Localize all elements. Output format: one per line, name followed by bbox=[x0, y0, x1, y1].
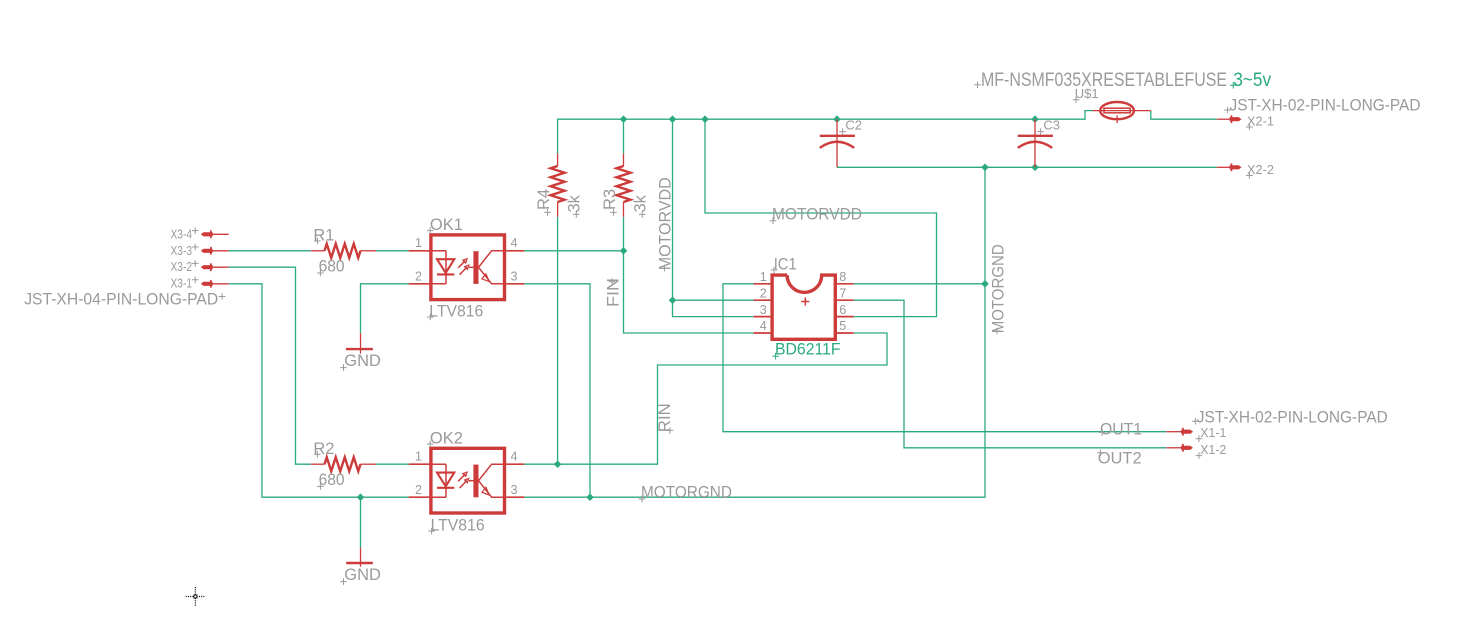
svg-text:LTV816: LTV816 bbox=[431, 516, 485, 534]
junction IC1 pin2 bbox=[669, 296, 677, 304]
wire OK1 pin2 to GND1 bbox=[361, 284, 409, 334]
wire OUT2 IC1 pin7 to X1-2 bbox=[854, 300, 1167, 448]
fuse U$1 MF-NSMF035X bbox=[1093, 102, 1151, 123]
net label MOTORVDD horizontal bbox=[770, 204, 862, 224]
wire VDD rail after fuse to X2-1 bbox=[1151, 111, 1217, 120]
junction IC1 pin8 MOTORGND bbox=[981, 280, 989, 288]
label X2-2 bbox=[1246, 163, 1274, 179]
svg-text:1: 1 bbox=[415, 236, 422, 250]
svg-text:BD6211F: BD6211F bbox=[775, 341, 841, 359]
pin X1-1 bbox=[1166, 428, 1193, 436]
net label MOTORGND horizontal bbox=[639, 483, 732, 503]
label R2 bbox=[313, 440, 334, 458]
svg-text:JST-XH-02-PIN-LONG-PAD: JST-XH-02-PIN-LONG-PAD bbox=[1230, 97, 1421, 115]
svg-text:3: 3 bbox=[760, 303, 767, 317]
label GND1 bbox=[340, 352, 381, 371]
svg-text:RIN: RIN bbox=[655, 403, 674, 432]
svg-text:X3-2: X3-2 bbox=[171, 260, 193, 274]
svg-text:MOTORGND: MOTORGND bbox=[988, 244, 1007, 333]
wire X3-2 to R2 bbox=[229, 267, 311, 464]
resistor R3 bbox=[617, 154, 631, 217]
junction pin6 branch top bbox=[701, 115, 709, 123]
net label MOTORGND vertical bbox=[988, 244, 1007, 334]
svg-text:MOTORVDD: MOTORVDD bbox=[772, 204, 862, 223]
svg-text:GND: GND bbox=[344, 352, 381, 370]
junction rail2 x985 bbox=[981, 164, 989, 172]
capacitor C3 bbox=[1018, 119, 1053, 167]
label U$1 bbox=[1073, 86, 1099, 103]
svg-text:LTV816: LTV816 bbox=[429, 302, 483, 320]
svg-text:2: 2 bbox=[415, 483, 422, 497]
label OK2 bbox=[427, 429, 463, 447]
svg-text:IC1: IC1 bbox=[774, 255, 797, 273]
svg-text:MOTORGND: MOTORGND bbox=[641, 483, 732, 502]
svg-text:8: 8 bbox=[839, 270, 846, 284]
svg-text:6: 6 bbox=[839, 303, 846, 317]
net label RIN bbox=[655, 403, 674, 434]
label OK1 bbox=[427, 216, 463, 234]
svg-text:4: 4 bbox=[511, 236, 518, 250]
label LTV816 value OK1 bbox=[427, 302, 483, 320]
wire R2 to OK2 pin1 bbox=[376, 463, 409, 465]
svg-text:5: 5 bbox=[839, 319, 846, 333]
IC1 pin numbers bbox=[760, 270, 846, 333]
ground GND2 bbox=[346, 548, 373, 567]
svg-text:C2: C2 bbox=[845, 118, 862, 133]
svg-text:4: 4 bbox=[511, 450, 518, 464]
wire OUT1 IC1 pin1 to X1-1 bbox=[723, 284, 1166, 432]
junction GND2 tap bbox=[357, 493, 365, 501]
svg-text:7: 7 bbox=[839, 286, 846, 300]
wire IC1 pin8 to MOTORGND bbox=[854, 283, 985, 285]
svg-text:X2-1: X2-1 bbox=[1247, 114, 1274, 128]
net label OUT2 bbox=[1097, 449, 1142, 468]
junction RIN at R4 bottom bbox=[554, 460, 562, 468]
label 680 value R2 bbox=[317, 471, 345, 490]
net label OUT1 bbox=[1099, 419, 1142, 438]
wire X3-3 to R1 bbox=[229, 250, 311, 252]
label R1 bbox=[313, 226, 334, 244]
junction C3 top bbox=[1031, 115, 1039, 123]
wire OK1 pin3 drop to MOTORGND bbox=[524, 284, 590, 497]
OK2 pin numbers bbox=[415, 450, 518, 497]
svg-text:C3: C3 bbox=[1043, 118, 1060, 133]
sheet origin cross bbox=[186, 587, 205, 606]
label X1-2 bbox=[1196, 443, 1227, 459]
wire MOTORVDD drop to IC1 pins 2/3 bbox=[673, 119, 754, 300]
svg-text:X3-4: X3-4 bbox=[171, 227, 193, 241]
pin X2-1 bbox=[1217, 115, 1242, 123]
junction FIN at R3 bottom bbox=[620, 247, 628, 255]
wire R1 to OK1 pin1 bbox=[376, 250, 409, 252]
svg-text:X3-1: X3-1 bbox=[171, 277, 193, 291]
svg-text:OK2: OK2 bbox=[430, 429, 463, 447]
label X3-1 bbox=[171, 277, 199, 291]
svg-text:3k: 3k bbox=[565, 194, 583, 212]
svg-text:1: 1 bbox=[760, 270, 767, 284]
pin X3-3 bbox=[201, 247, 229, 255]
svg-text:MOTORVDD: MOTORVDD bbox=[656, 177, 675, 270]
label JST-XH-04-PIN-LONG-PAD bbox=[24, 291, 225, 309]
label R4 bbox=[535, 189, 553, 216]
svg-text:FIN: FIN bbox=[604, 278, 623, 307]
label 3~5v value bbox=[1230, 69, 1272, 91]
wire GND2 drop bbox=[360, 497, 362, 548]
resistor R2 bbox=[311, 457, 376, 471]
capacitor C2 bbox=[820, 119, 855, 167]
wire MOTORVDD branch to IC1 pin6 bbox=[705, 119, 937, 316]
svg-text:2: 2 bbox=[415, 270, 422, 284]
label JST-XH-02-PIN-LONG-PAD bottom bbox=[1192, 409, 1388, 427]
svg-text:1: 1 bbox=[415, 450, 422, 464]
wire X3-1 to OK2 pin2 bbox=[229, 284, 409, 497]
pin X3-2 bbox=[201, 263, 229, 271]
svg-text:X2-2: X2-2 bbox=[1247, 163, 1274, 177]
svg-text:4: 4 bbox=[760, 319, 767, 333]
svg-text:R3: R3 bbox=[601, 189, 619, 210]
label X3-3 bbox=[171, 244, 199, 258]
svg-text:R4: R4 bbox=[535, 189, 553, 210]
label 3k value R4 bbox=[565, 194, 583, 217]
svg-text:X1-2: X1-2 bbox=[1200, 443, 1226, 457]
ground GND1 bbox=[346, 333, 373, 353]
wire RIN net OK2 pin4 to IC1 pin5 bbox=[524, 333, 887, 464]
wire R3 top drop bbox=[623, 119, 625, 153]
svg-text:OUT2: OUT2 bbox=[1098, 449, 1142, 468]
motor driver IC1 BD6211F bbox=[754, 275, 854, 339]
label GND2 bbox=[340, 566, 381, 585]
optocoupler OK1 LTV816 bbox=[409, 235, 525, 300]
junction C2 top bbox=[833, 115, 841, 123]
svg-text:MF-NSMF035XRESETABLEFUSE: MF-NSMF035XRESETABLEFUSE bbox=[981, 69, 1227, 91]
label X2-1 bbox=[1246, 114, 1274, 130]
svg-text:2: 2 bbox=[760, 286, 767, 300]
junction C3 bottom bbox=[1031, 164, 1039, 172]
net label FIN bbox=[604, 278, 623, 307]
label C3 bbox=[1037, 118, 1060, 135]
net label MOTORVDD vertical bbox=[656, 177, 675, 271]
svg-text:3~5v: 3~5v bbox=[1233, 69, 1271, 91]
svg-text:JST-XH-04-PIN-LONG-PAD: JST-XH-04-PIN-LONG-PAD bbox=[24, 291, 218, 309]
wire IC1 pin2 to pin3 tie bbox=[673, 300, 754, 316]
svg-text:X3-3: X3-3 bbox=[171, 244, 193, 258]
junction R3 top bbox=[620, 115, 628, 123]
label R3 bbox=[601, 189, 619, 216]
label C2 bbox=[839, 118, 862, 135]
label X1-1 bbox=[1196, 426, 1227, 442]
svg-text:R1: R1 bbox=[313, 226, 334, 244]
resistor R1 bbox=[311, 244, 376, 258]
label BD6211F value bbox=[772, 341, 840, 360]
svg-text:3: 3 bbox=[511, 270, 518, 284]
pin X1-2 bbox=[1166, 444, 1193, 452]
svg-text:JST-XH-02-PIN-LONG-PAD: JST-XH-02-PIN-LONG-PAD bbox=[1197, 409, 1388, 427]
label JST-XH-02-PIN-LONG-PAD top bbox=[1224, 97, 1420, 115]
svg-text:OK1: OK1 bbox=[430, 216, 463, 234]
wire R3 bottom to FIN junction bbox=[623, 217, 625, 251]
label IC1 bbox=[771, 255, 797, 273]
svg-text:R2: R2 bbox=[313, 440, 334, 458]
OK1 pin numbers bbox=[415, 236, 518, 283]
label 680 value R1 bbox=[317, 258, 345, 277]
label X3-4 bbox=[171, 227, 199, 241]
svg-text:OUT1: OUT1 bbox=[1100, 419, 1142, 438]
label LTV816 value OK2 bbox=[428, 516, 484, 534]
svg-text:3: 3 bbox=[511, 483, 518, 497]
pin X3-1 bbox=[201, 280, 229, 288]
label MF-NSMF035XRESETABLEFUSE bbox=[974, 69, 1227, 91]
pin X2-2 bbox=[1217, 163, 1242, 171]
wire R4 bottom to OK2 pin4 row bbox=[557, 217, 559, 464]
junction OK1 pin3 at MOTORGND row bbox=[586, 493, 594, 501]
resistor R4 bbox=[551, 154, 565, 217]
pin X3-4 bbox=[201, 230, 229, 238]
junction MOTORVDD top bbox=[669, 115, 677, 123]
svg-text:3k: 3k bbox=[631, 194, 649, 212]
label 3k value R3 bbox=[631, 194, 649, 217]
wire FIN net OK1 pin4 to R3 and IC1 pin4 bbox=[524, 251, 753, 333]
wire MOTORGND vertical x985 bbox=[524, 167, 985, 497]
svg-text:GND: GND bbox=[344, 566, 381, 584]
wire rail2 C2 to X2-2 bbox=[837, 166, 1217, 168]
svg-text:X1-1: X1-1 bbox=[1200, 426, 1226, 440]
label X3-2 bbox=[171, 260, 199, 274]
optocoupler OK2 LTV816 bbox=[409, 448, 525, 513]
wire VDD top rail bbox=[558, 111, 1093, 154]
